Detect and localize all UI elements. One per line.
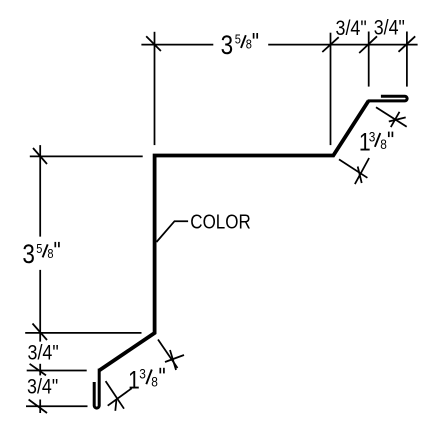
bottom-left 1 3/8 dim: upper ext line — [158, 340, 178, 369]
inch mark top 3 5/8 — [253, 33, 255, 39]
extension line y=370.5 — [27, 370, 87, 372]
left vertical dimension line x=40.2 segments — [39, 145, 41, 237]
top dimension line y=44.6 (right segment) — [268, 44, 417, 46]
tick at (368.7,44.6) — [359, 36, 377, 53]
top-right upper star tick A — [389, 117, 406, 121]
top-right lower star tick A — [355, 158, 369, 184]
slash of 5/8 (top) — [241, 35, 246, 48]
svg-text:COLOR: COLOR — [190, 210, 250, 233]
tick at (406.9,44.6) — [399, 36, 416, 52]
hemmed edge bottom-left — [94, 369, 99, 409]
dimension text: top 3 5/8" — [221, 31, 253, 60]
tick at (330.5,44.6) — [322, 37, 338, 52]
extension line x=406.9 — [406, 32, 408, 87]
dimension text: bottom-left 1 3/8" — [128, 366, 158, 394]
extension line y=406.3 — [26, 405, 88, 407]
inch marks drawn as double bars — [55, 33, 392, 373]
svg-text:3/4": 3/4" — [374, 16, 405, 40]
inch mark top-right 1 3/8 — [388, 132, 390, 138]
svg-text:3/4": 3/4" — [336, 17, 367, 41]
hemmed edge top-right — [368, 96, 408, 101]
svg-text:8: 8 — [151, 374, 158, 390]
inch mark bottom-left 1 3/8 — [159, 368, 161, 374]
extension line x=368.7 — [368, 32, 370, 87]
top-right upper star tick B — [391, 112, 400, 127]
svg-text:3: 3 — [221, 31, 234, 60]
inch mark left 3 5/8 — [54, 242, 56, 247]
top dimension line y=44.6 (left segment) — [141, 44, 213, 46]
COLOR leader line — [157, 221, 189, 242]
bottom-left upper star tick A — [165, 355, 184, 362]
tick at (40.2,332.9) — [33, 324, 48, 341]
tick at (40.2,370.5) — [30, 364, 46, 376]
top-right lower star tick B — [358, 167, 362, 184]
fraction slashes drawn as lines — [43, 35, 381, 384]
svg-text:3/4": 3/4" — [27, 375, 58, 399]
svg-text:1: 1 — [128, 366, 140, 394]
svg-text:8: 8 — [246, 36, 252, 51]
svg-text:8: 8 — [47, 246, 53, 261]
dimension text: top-right 1 3/8" — [359, 128, 387, 156]
svg-text:5: 5 — [235, 32, 241, 47]
extension line y=332.9 — [25, 332, 141, 334]
extension line x=330.5 — [330, 33, 332, 145]
bottom-left lower star tick B — [115, 400, 116, 411]
bottom-left upper star tick B — [170, 350, 176, 370]
bottom-left 1 3/8 dim: lower ext line — [106, 381, 124, 409]
tick at (40.2,406.3) — [29, 400, 47, 414]
svg-text:3: 3 — [22, 240, 35, 269]
slash of 3/8 (bottom-left) — [146, 370, 152, 385]
svg-text:3: 3 — [139, 366, 146, 382]
slash of 3/8 (top-right) — [375, 133, 380, 147]
tick at (154.5,44.6) — [146, 36, 161, 51]
bottom-left lower star tick A — [108, 388, 132, 405]
dimension text: left 3 5/8" — [22, 240, 54, 269]
svg-text:3/4": 3/4" — [28, 341, 59, 365]
svg-text:5: 5 — [36, 241, 42, 256]
top-right 1 3/8 dim: upper ext line — [376, 107, 407, 126]
flashing profile (thick metal outline) — [99, 101, 368, 371]
top-right 1 3/8 dim: lower ext line — [339, 159, 367, 177]
extension line y=156.4 — [30, 155, 143, 157]
thin dimension linework — [25, 32, 417, 414]
slash of 5/8 (left) — [43, 244, 48, 257]
svg-text:3: 3 — [369, 129, 376, 145]
extension line x=154.5 — [154, 32, 156, 145]
tick at (40.2,156.4) — [33, 148, 47, 164]
svg-text:8: 8 — [380, 136, 387, 152]
